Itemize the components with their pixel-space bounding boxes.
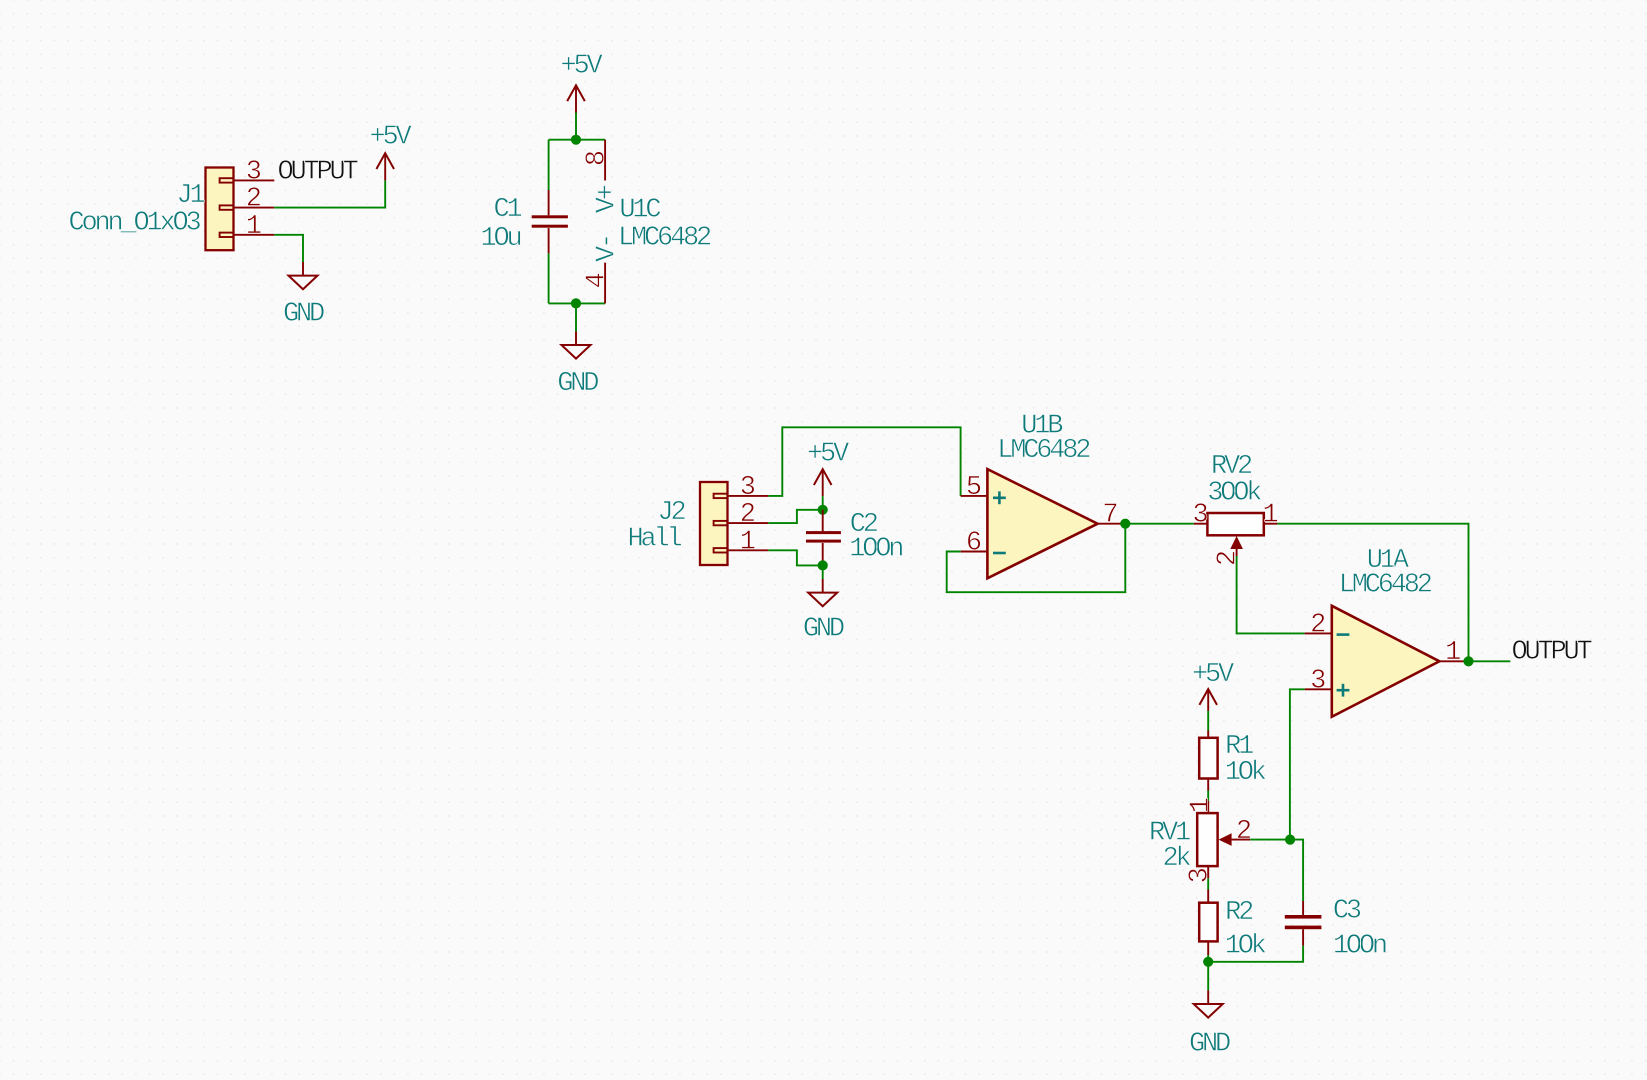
svg-text:5: 5 xyxy=(966,473,982,503)
svg-text:2: 2 xyxy=(740,500,756,530)
svg-text:OUTPUT: OUTPUT xyxy=(1512,638,1593,668)
wire U1B out to RV2.3 xyxy=(1125,523,1194,525)
svg-text:7: 7 xyxy=(1102,501,1118,531)
svg-text:1Ok: 1Ok xyxy=(1225,758,1266,788)
wire RV1.2 to junction xyxy=(1250,839,1290,841)
op-amp U1A xyxy=(1332,606,1440,717)
svg-text:GND: GND xyxy=(283,300,324,330)
svg-text:J1: J1 xyxy=(176,181,204,211)
power +5V (R1) xyxy=(1192,660,1235,711)
wire U1A+ to divider xyxy=(1290,689,1305,839)
wire J2.2 to C2 top junction xyxy=(768,510,822,523)
svg-text:GND: GND xyxy=(1189,1030,1230,1060)
wire to GND (divider) xyxy=(1207,962,1209,991)
svg-text:2: 2 xyxy=(1236,817,1252,847)
ground GND (divider) xyxy=(1189,990,1230,1059)
wire RV2.2 to U1A- xyxy=(1237,556,1305,633)
U1A pin 3 xyxy=(1305,666,1350,696)
svg-text:LMC6482: LMC6482 xyxy=(1339,571,1432,601)
wire J1.2 to +5V xyxy=(274,180,385,207)
U1A pin 2 xyxy=(1305,610,1350,640)
svg-text:1: 1 xyxy=(740,527,756,557)
junction U1A output xyxy=(1463,656,1473,666)
junction U1B output xyxy=(1120,519,1130,529)
ground GND (C1) xyxy=(557,331,598,399)
wire U1B feedback xyxy=(947,524,1126,593)
svg-text:C1: C1 xyxy=(493,195,521,225)
junction divider node xyxy=(1285,835,1295,845)
wire R1 to RV1 xyxy=(1207,779,1209,791)
power +5V (J1) xyxy=(369,123,412,181)
svg-text:GND: GND xyxy=(557,369,598,399)
wire J2.3 up to U1B+ xyxy=(768,427,960,496)
J1 pin 2 xyxy=(234,185,275,215)
capacitor C2 xyxy=(806,510,902,566)
wire RV2.1 to output node xyxy=(1277,524,1468,662)
junction bottom (C1) xyxy=(571,298,581,308)
U1B pin 5 xyxy=(961,473,1006,504)
svg-text:1Ok: 1Ok xyxy=(1225,931,1266,961)
svg-text:LMC6482: LMC6482 xyxy=(997,436,1090,466)
svg-text:1: 1 xyxy=(1445,638,1461,668)
svg-text:J2: J2 xyxy=(657,498,685,528)
svg-text:R2: R2 xyxy=(1225,898,1253,928)
wire J1.1 to GND xyxy=(274,235,303,262)
power +5V (C2) xyxy=(807,439,850,496)
svg-text:GND: GND xyxy=(803,615,844,645)
wire +5V to R1 xyxy=(1207,711,1209,731)
connector J2 xyxy=(700,482,728,565)
wire top rail (C1/U1C) xyxy=(549,139,606,141)
wire +5V to top rail xyxy=(575,113,577,140)
svg-text:1: 1 xyxy=(1187,797,1217,813)
wire C3 bottom xyxy=(1208,946,1303,962)
junction GND node xyxy=(1203,957,1213,967)
junction C2 bottom xyxy=(818,560,828,570)
op-amp U1C power pins xyxy=(582,140,622,304)
wire R2 bottom xyxy=(1207,941,1209,955)
svg-text:LMC6482: LMC6482 xyxy=(618,224,711,254)
wire RV1 to R2 xyxy=(1207,866,1209,878)
RV2 pin 3 xyxy=(1192,501,1208,531)
svg-text:3: 3 xyxy=(1185,867,1215,883)
junction top (C1) xyxy=(571,135,581,145)
svg-text:+5V: +5V xyxy=(1192,660,1235,690)
capacitor C1 xyxy=(480,190,567,254)
J1 pin 1 xyxy=(234,212,275,242)
wire bottom rail (C1/U1C) xyxy=(549,302,606,304)
svg-text:3: 3 xyxy=(1310,666,1326,696)
wire C1 upper lead xyxy=(548,140,550,190)
svg-text:2: 2 xyxy=(246,185,262,215)
op-amp U1B xyxy=(987,469,1097,578)
svg-text:V+: V+ xyxy=(593,185,623,213)
connector J1 xyxy=(206,168,234,251)
resistor R1 xyxy=(1199,732,1266,788)
svg-text:1OOn: 1OOn xyxy=(849,535,902,565)
svg-text:2: 2 xyxy=(1310,610,1326,640)
svg-text:+5V: +5V xyxy=(369,123,412,153)
svg-text:8: 8 xyxy=(582,150,612,166)
svg-text:1: 1 xyxy=(1262,501,1278,531)
svg-text:Hall: Hall xyxy=(627,524,681,554)
J2 pin 3 xyxy=(728,473,769,503)
wire +5V to C2 xyxy=(822,496,824,510)
resistor R2 xyxy=(1199,898,1266,962)
svg-text:U1C: U1C xyxy=(619,195,661,225)
potentiometer RV2 xyxy=(1207,513,1263,556)
U1B pin 6 xyxy=(961,529,1006,559)
svg-text:1Ou: 1Ou xyxy=(480,224,520,254)
svg-text:3OOk: 3OOk xyxy=(1207,479,1261,509)
power +5V (C1 top) xyxy=(560,52,603,113)
ground GND (C2) xyxy=(803,579,844,645)
svg-text:4: 4 xyxy=(582,272,612,288)
wire C2 bottom to GND xyxy=(822,565,824,579)
svg-text:3: 3 xyxy=(1192,501,1208,531)
wire J2.1 to C2 bottom junction xyxy=(768,550,822,565)
svg-text:OUTPUT: OUTPUT xyxy=(278,158,359,188)
wire C1 bottom to GND xyxy=(575,303,577,331)
junction C2 top xyxy=(818,505,828,515)
U1B pin 7 xyxy=(1098,501,1126,531)
svg-text:3: 3 xyxy=(740,473,756,503)
potentiometer RV1 xyxy=(1197,813,1250,866)
svg-text:+5V: +5V xyxy=(807,439,850,469)
wire U1A out to label xyxy=(1469,660,1511,662)
svg-text:1OOn: 1OOn xyxy=(1333,931,1386,961)
svg-text:2: 2 xyxy=(1214,550,1244,566)
svg-text:1: 1 xyxy=(246,212,262,242)
wire C1 lower lead xyxy=(548,253,550,303)
svg-text:Conn_O1xO3: Conn_O1xO3 xyxy=(68,209,200,239)
ground GND (J1) xyxy=(283,262,324,330)
svg-text:3: 3 xyxy=(246,157,262,187)
J1 pin 3 xyxy=(234,157,275,187)
svg-text:6: 6 xyxy=(966,529,982,559)
J2 pin 1 xyxy=(728,527,769,557)
capacitor C3 xyxy=(1285,896,1386,961)
RV2 pin 1 xyxy=(1262,501,1278,531)
svg-text:C3: C3 xyxy=(1333,896,1361,926)
J2 pin 2 xyxy=(728,500,769,530)
svg-text:RV2: RV2 xyxy=(1211,452,1252,482)
U1A pin 1 xyxy=(1439,638,1468,668)
wire junction to C3 xyxy=(1290,840,1303,901)
svg-text:+5V: +5V xyxy=(560,52,603,82)
